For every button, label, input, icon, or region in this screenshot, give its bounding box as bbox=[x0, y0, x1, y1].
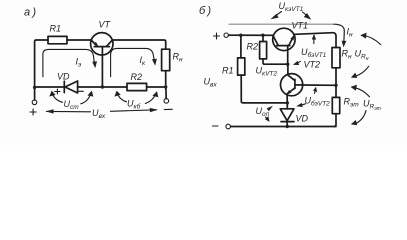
svg-text:Uст: Uст bbox=[64, 99, 80, 111]
svg-text:Iэ: Iэ bbox=[76, 57, 82, 69]
label URet bbox=[363, 99, 381, 113]
svg-text:UбэVT1: UбэVT1 bbox=[301, 47, 327, 59]
svg-text:VD: VD bbox=[296, 114, 309, 124]
svg-text:UбэVT2: UбэVT2 bbox=[305, 96, 331, 108]
svg-text:UкэVT1: UкэVT1 bbox=[279, 1, 304, 13]
svg-text:Rн: Rн bbox=[173, 52, 184, 64]
label Uke VT1 bbox=[279, 1, 304, 13]
svg-text:VT2: VT2 bbox=[304, 60, 321, 70]
label Ube VT2 bbox=[305, 96, 331, 108]
arrow UbeVT1 down-left bbox=[297, 61, 301, 63]
terminal plus bbox=[224, 33, 228, 37]
arrow Uop down bbox=[266, 117, 269, 120]
svg-text:Uоп: Uоп bbox=[256, 106, 270, 118]
svg-text:UкVT2: UкVT2 bbox=[256, 66, 278, 78]
svg-text:Rэт: Rэт bbox=[344, 97, 360, 109]
voltage arc Ukb right bbox=[145, 94, 156, 104]
resistor Rn bbox=[162, 49, 170, 70]
minus sign input bbox=[213, 125, 219, 127]
wire top left bbox=[67, 39, 91, 41]
svg-text:Iк: Iк bbox=[140, 55, 147, 67]
wire left rail bbox=[35, 40, 48, 87]
arrow UkeVT1 right bbox=[303, 12, 309, 17]
bottom wire with diode VD bbox=[35, 86, 65, 88]
svg-text:Iн: Iн bbox=[347, 27, 354, 39]
arrow UkeVT1 left bbox=[274, 12, 282, 18]
label Ust bbox=[64, 99, 80, 111]
arc URet lower bbox=[356, 111, 366, 124]
transistor VT1 bbox=[273, 28, 295, 50]
minus mark at diode bbox=[79, 90, 84, 92]
transistor VT bbox=[91, 33, 113, 55]
wire VT1 emitter to Rn bbox=[295, 33, 336, 48]
terminal minus bbox=[226, 124, 231, 129]
diode VD bbox=[63, 81, 65, 92]
label Ukb bbox=[127, 99, 141, 111]
label Uvx bbox=[204, 77, 218, 89]
voltage arc Ukb left bbox=[117, 93, 126, 102]
svg-text:Uвх: Uвх bbox=[92, 108, 106, 120]
svg-text:URн: URн bbox=[355, 49, 369, 63]
resistor R1 bbox=[48, 36, 67, 43]
wire below Rn bbox=[165, 71, 167, 87]
label Uop bbox=[256, 106, 270, 118]
node VD top bbox=[286, 101, 289, 104]
node VT1 base / VT2 collector bbox=[286, 62, 289, 65]
resistor Rn bbox=[332, 48, 340, 68]
current arrow Ie bbox=[43, 49, 94, 76]
wire collector rail gray bbox=[229, 23, 334, 25]
svg-text:Uкб: Uкб bbox=[127, 99, 141, 111]
node right terminal junction bbox=[164, 85, 167, 88]
node base junction bbox=[101, 85, 104, 88]
svg-text:Rн: Rн bbox=[342, 49, 353, 61]
arrow Uop up bbox=[268, 107, 271, 109]
resistor Ret bbox=[335, 85, 337, 97]
arrow UbeVT1 up bbox=[313, 39, 315, 44]
svg-text:VT: VT bbox=[99, 20, 112, 30]
node divider bbox=[334, 84, 337, 87]
svg-text:а ): а ) bbox=[24, 7, 36, 19]
label UkVT2 bbox=[256, 66, 278, 78]
arrow UbeVT2 left bbox=[301, 104, 306, 106]
svg-text:Uвх: Uвх bbox=[204, 77, 218, 89]
wire bottom right bbox=[147, 86, 166, 88]
label b) bbox=[199, 5, 211, 17]
label Uvx bbox=[92, 108, 106, 120]
plus sign input bbox=[214, 33, 220, 39]
label a) bbox=[24, 7, 36, 19]
node VD bottom bbox=[286, 125, 289, 128]
resistor R1 bbox=[240, 35, 242, 58]
voltage arc Ust right bbox=[81, 93, 91, 104]
plus sign input bbox=[30, 109, 36, 115]
svg-text:VT1: VT1 bbox=[292, 21, 309, 31]
diode VD bbox=[286, 103, 288, 109]
arrow UbeVT2 up bbox=[314, 91, 317, 94]
wire top right bbox=[112, 40, 165, 49]
label Ube VT1 bbox=[301, 47, 327, 59]
arc URn upper bbox=[364, 36, 381, 45]
svg-text:R2: R2 bbox=[247, 42, 259, 52]
label URn bbox=[355, 49, 369, 63]
svg-text:VD: VD bbox=[57, 72, 70, 82]
resistor R2 bbox=[262, 35, 264, 41]
transistor VT2 bbox=[281, 74, 303, 96]
minus sign input bbox=[164, 108, 172, 110]
node R1 tap bbox=[239, 34, 242, 37]
arc URn lower bbox=[356, 66, 369, 76]
svg-text:R1: R1 bbox=[222, 66, 234, 76]
wire bottom rail bbox=[231, 126, 336, 128]
svg-text:R1: R1 bbox=[50, 24, 62, 34]
wire plus rail bbox=[229, 34, 273, 36]
svg-text:R2: R2 bbox=[131, 72, 143, 82]
svg-text:URэт: URэт bbox=[363, 99, 381, 113]
label In bbox=[347, 27, 354, 39]
current arrow Ik bbox=[111, 48, 155, 76]
plus mark at diode bbox=[55, 89, 60, 94]
arc URet upper bbox=[355, 88, 370, 97]
node R2 tap bbox=[261, 34, 264, 37]
node left terminal junction bbox=[33, 86, 36, 89]
svg-text:б ): б ) bbox=[199, 5, 211, 17]
input voltage arrow Uvx bbox=[47, 110, 91, 112]
resistor R2 bbox=[127, 83, 147, 90]
voltage arc Ust left bbox=[52, 93, 62, 103]
